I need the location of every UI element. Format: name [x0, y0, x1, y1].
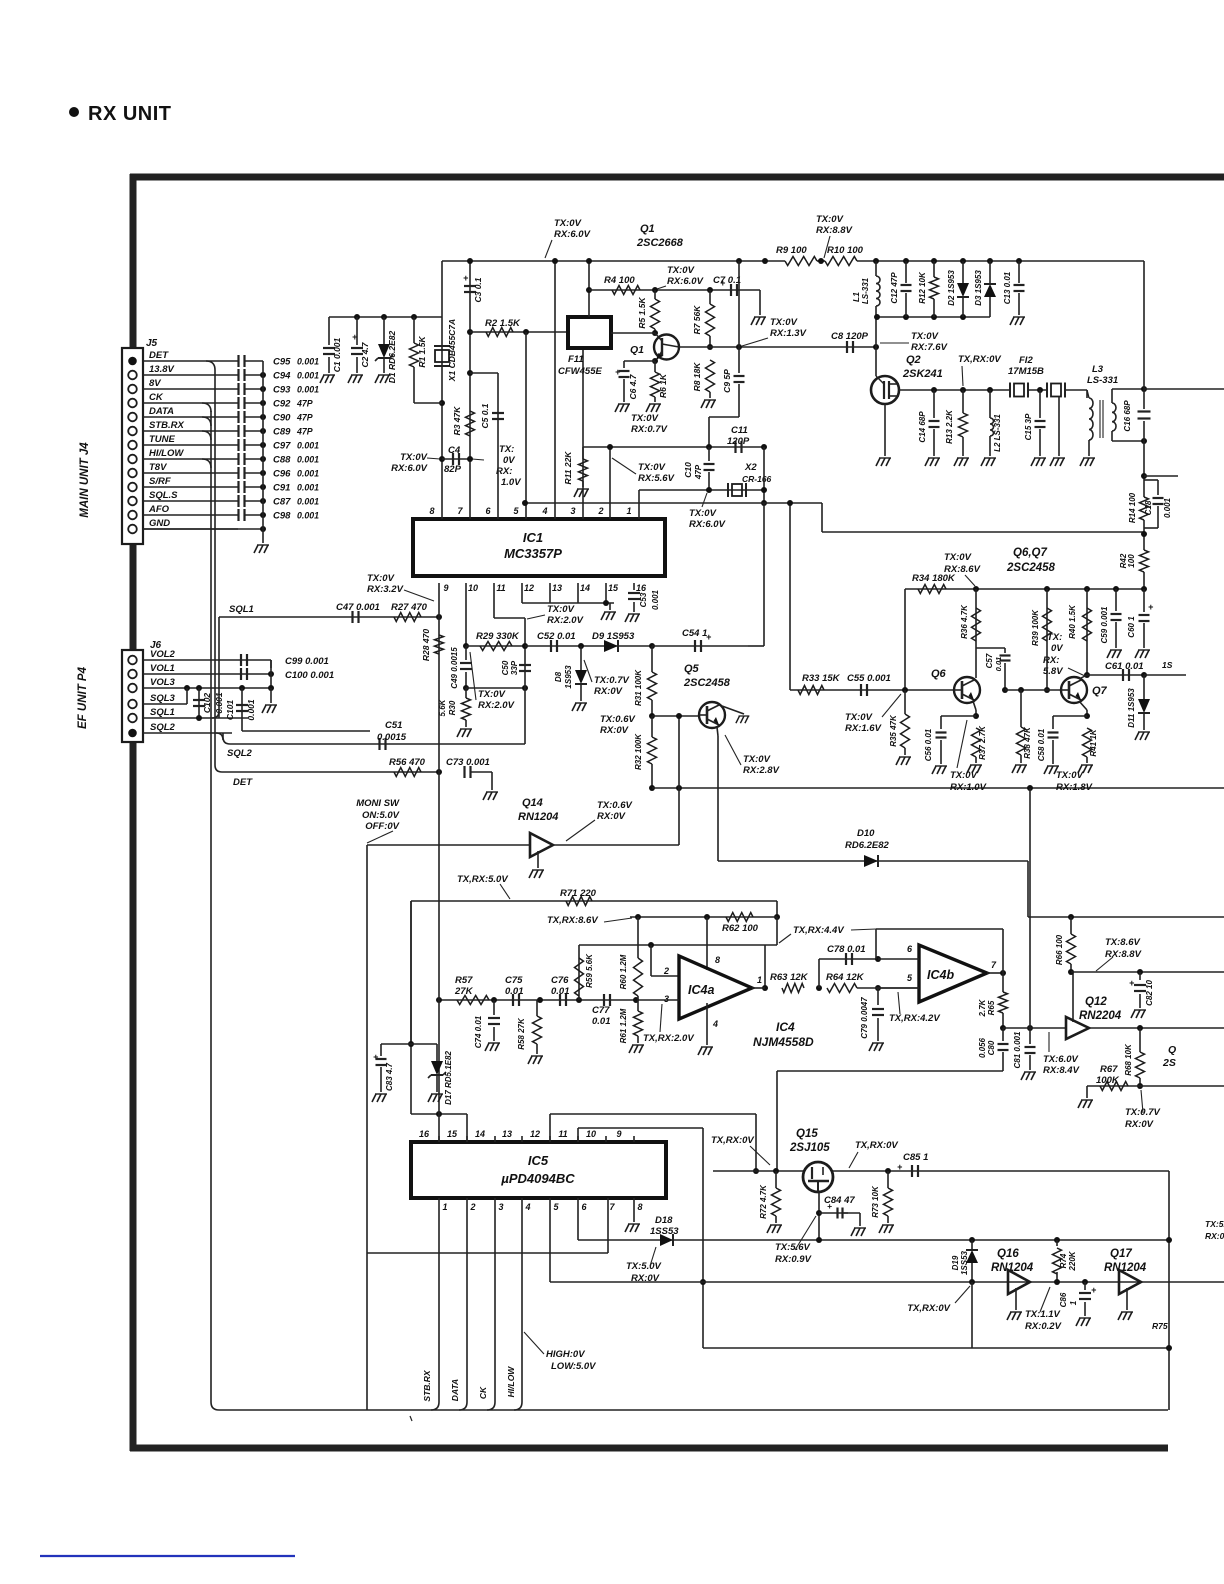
- svg-text:120P: 120P: [727, 436, 750, 447]
- svg-text:14: 14: [580, 583, 590, 593]
- svg-text:15: 15: [447, 1129, 458, 1139]
- svg-text:11: 11: [496, 583, 505, 593]
- svg-text:TX:0.6V: TX:0.6V: [600, 714, 636, 725]
- svg-text:R10 100: R10 100: [827, 245, 864, 256]
- svg-text:R8 18K: R8 18K: [692, 362, 702, 392]
- svg-text:TX:6.0V: TX:6.0V: [1043, 1054, 1079, 1065]
- svg-text:R64 12K: R64 12K: [826, 972, 865, 983]
- svg-text:VOL3: VOL3: [150, 677, 176, 688]
- svg-text:RN1204: RN1204: [518, 811, 558, 823]
- svg-text:F11: F11: [568, 354, 584, 365]
- svg-text:RX:0.7V: RX:0.7V: [631, 424, 668, 435]
- svg-text:R63 12K: R63 12K: [770, 972, 809, 983]
- svg-text:LS-331: LS-331: [1087, 375, 1118, 386]
- svg-text:Q14: Q14: [522, 797, 543, 809]
- svg-text:HI/LOW: HI/LOW: [506, 1366, 516, 1398]
- svg-text:+: +: [352, 332, 358, 342]
- svg-text:+: +: [463, 273, 469, 283]
- svg-text:C79 0.0047: C79 0.0047: [860, 997, 869, 1039]
- svg-text:D1 RD6.2E82: D1 RD6.2E82: [387, 331, 397, 384]
- svg-text:2: 2: [469, 1202, 475, 1212]
- svg-text:DATA: DATA: [450, 1379, 460, 1401]
- svg-text:TX:0V: TX:0V: [816, 214, 844, 225]
- svg-text:R31 100K: R31 100K: [634, 669, 643, 706]
- svg-text:0.001: 0.001: [1163, 497, 1172, 518]
- svg-text:13: 13: [502, 1129, 512, 1139]
- svg-text:VOL1: VOL1: [150, 663, 175, 674]
- svg-text:C98: C98: [273, 511, 291, 522]
- svg-text:R67: R67: [1100, 1064, 1118, 1075]
- svg-text:TX:: TX:: [1047, 632, 1062, 643]
- svg-text:C60 1: C60 1: [1127, 616, 1136, 638]
- svg-text:8: 8: [637, 1202, 642, 1212]
- svg-text:R68 10K: R68 10K: [1124, 1043, 1133, 1076]
- svg-text:1SS53: 1SS53: [960, 1250, 969, 1275]
- svg-text:TX:1.1V: TX:1.1V: [1025, 1309, 1061, 1320]
- svg-text:13.8V: 13.8V: [149, 364, 174, 375]
- svg-text:C57: C57: [985, 653, 994, 668]
- svg-text:TX:0V: TX:0V: [1056, 770, 1084, 781]
- svg-text:MC3357P: MC3357P: [504, 546, 562, 561]
- svg-text:R32 100K: R32 100K: [634, 733, 643, 770]
- svg-text:C97: C97: [273, 441, 291, 452]
- svg-text:C4: C4: [448, 445, 461, 456]
- svg-text:14: 14: [475, 1129, 485, 1139]
- svg-text:+: +: [1129, 978, 1135, 988]
- svg-text:HIGH:0V: HIGH:0V: [546, 1349, 585, 1360]
- svg-text:R59 5.6K: R59 5.6K: [585, 953, 594, 988]
- svg-text:RX:1.6V: RX:1.6V: [845, 723, 882, 734]
- svg-text:STB.RX: STB.RX: [422, 1369, 432, 1402]
- svg-text:RX:3.2V: RX:3.2V: [367, 584, 404, 595]
- svg-text:47P: 47P: [296, 413, 313, 423]
- svg-text:TX,RX:4.4V: TX,RX:4.4V: [793, 925, 844, 936]
- svg-text:D8: D8: [554, 671, 563, 682]
- svg-text:16: 16: [636, 583, 647, 593]
- svg-text:SQL1: SQL1: [150, 707, 175, 718]
- svg-text:1: 1: [626, 506, 631, 516]
- svg-text:R60 1.2M: R60 1.2M: [619, 954, 628, 989]
- svg-text:Q17: Q17: [1110, 1248, 1132, 1260]
- svg-text:Q6: Q6: [931, 668, 947, 680]
- svg-text:TX,RX:0V: TX,RX:0V: [958, 354, 1001, 365]
- svg-text:C55 0.001: C55 0.001: [847, 673, 891, 684]
- svg-text:IC4b: IC4b: [927, 968, 954, 982]
- svg-text:0.001: 0.001: [297, 483, 319, 493]
- svg-text:C59 0.001: C59 0.001: [1100, 606, 1109, 643]
- svg-text:TX:0V: TX:0V: [631, 413, 659, 424]
- svg-text:RX:1.3V: RX:1.3V: [770, 328, 807, 339]
- svg-text:3: 3: [664, 994, 669, 1004]
- svg-text:C83 4.7: C83 4.7: [385, 1062, 394, 1091]
- svg-text:100: 100: [1127, 554, 1136, 568]
- svg-text:SQL1: SQL1: [229, 604, 254, 615]
- svg-text:TX:8.6V: TX:8.6V: [1105, 937, 1141, 948]
- svg-text:2SC2458: 2SC2458: [1006, 562, 1056, 574]
- svg-text:R66 100: R66 100: [1055, 934, 1064, 965]
- svg-text:TX:: TX:: [499, 444, 514, 455]
- svg-text:R29 330K: R29 330K: [476, 631, 520, 642]
- svg-text:0.01: 0.01: [994, 657, 1003, 672]
- svg-text:2SJ105: 2SJ105: [789, 1142, 830, 1154]
- svg-text:C14 68P: C14 68P: [918, 411, 927, 443]
- svg-text:8V: 8V: [149, 378, 161, 389]
- svg-text:8: 8: [715, 955, 720, 965]
- svg-text:R37 2.7K: R37 2.7K: [978, 725, 987, 760]
- svg-text:R36 4.7K: R36 4.7K: [960, 604, 969, 639]
- svg-text:D19: D19: [951, 1255, 960, 1270]
- svg-text:C6 4.7: C6 4.7: [628, 373, 638, 399]
- svg-text:RX:0.2V: RX:0.2V: [1025, 1321, 1062, 1332]
- svg-text:TX:0V: TX:0V: [400, 452, 428, 463]
- svg-text:TX:0V: TX:0V: [638, 462, 666, 473]
- svg-text:RX:5.6V: RX:5.6V: [638, 473, 675, 484]
- svg-text:X1 CDB455C7A: X1 CDB455C7A: [447, 319, 457, 382]
- svg-text:R28 470: R28 470: [421, 629, 431, 661]
- svg-text:R75: R75: [1152, 1321, 1168, 1331]
- svg-text:RX:7.6V: RX:7.6V: [911, 342, 948, 353]
- svg-text:82P: 82P: [444, 464, 462, 475]
- svg-text:C82 10: C82 10: [1145, 980, 1154, 1006]
- svg-text:C16 68P: C16 68P: [1123, 400, 1132, 432]
- svg-text:C12 47P: C12 47P: [890, 272, 899, 304]
- svg-text:Q15: Q15: [796, 1128, 818, 1140]
- svg-text:LS-331: LS-331: [861, 277, 870, 304]
- svg-text:C90: C90: [273, 413, 291, 424]
- svg-text:RX:2.8V: RX:2.8V: [743, 765, 780, 776]
- svg-text:9: 9: [443, 583, 448, 593]
- svg-text:RX:2.0V: RX:2.0V: [547, 615, 584, 626]
- svg-text:IC1: IC1: [523, 530, 543, 545]
- svg-text:C8 120P: C8 120P: [831, 331, 869, 342]
- svg-text:R74: R74: [1059, 1253, 1068, 1268]
- svg-text:S/RF: S/RF: [149, 476, 171, 487]
- svg-text:0.001: 0.001: [297, 371, 319, 381]
- svg-text:0.001: 0.001: [651, 589, 660, 610]
- svg-text:MAIN UNIT J4: MAIN UNIT J4: [79, 442, 91, 518]
- svg-text:Q: Q: [1168, 1044, 1176, 1056]
- svg-text:C74 0.01: C74 0.01: [474, 1015, 483, 1048]
- svg-text:1: 1: [442, 1202, 447, 1212]
- svg-text:L1: L1: [851, 292, 861, 302]
- svg-text:CFW455E: CFW455E: [558, 366, 602, 377]
- svg-text:CK: CK: [478, 1386, 488, 1399]
- svg-text:5.8V: 5.8V: [1043, 666, 1063, 677]
- svg-text:C53: C53: [639, 592, 648, 607]
- svg-text:RX:0V: RX:0V: [600, 725, 629, 736]
- svg-text:47P: 47P: [296, 427, 313, 437]
- svg-text:R65: R65: [987, 1000, 996, 1015]
- svg-text:2: 2: [597, 506, 603, 516]
- svg-text:TX,RX:0V: TX,RX:0V: [711, 1135, 754, 1146]
- svg-text:C81 0.001: C81 0.001: [1013, 1031, 1022, 1068]
- svg-text:RX:0V: RX:0V: [631, 1273, 660, 1284]
- svg-text:15: 15: [608, 583, 619, 593]
- svg-text:TX:0V: TX:0V: [770, 317, 798, 328]
- svg-text:R12 10K: R12 10K: [918, 271, 927, 304]
- svg-text:FI2: FI2: [1019, 355, 1033, 366]
- svg-text:RX:6.0V: RX:6.0V: [667, 276, 704, 287]
- svg-text:RX:6.0V: RX:6.0V: [689, 519, 726, 530]
- svg-text:17M15B: 17M15B: [1008, 366, 1044, 377]
- svg-text:C54 1: C54 1: [682, 628, 707, 639]
- svg-text:C100 0.001: C100 0.001: [285, 670, 334, 681]
- svg-text:R71 220: R71 220: [560, 888, 597, 899]
- svg-text:33P: 33P: [510, 660, 519, 675]
- svg-text:TX:0V: TX:0V: [845, 712, 873, 723]
- svg-text:C11: C11: [731, 425, 748, 436]
- svg-text:R56 470: R56 470: [389, 757, 426, 768]
- svg-text:D10: D10: [857, 828, 875, 839]
- svg-text:TX:0.6V: TX:0.6V: [597, 800, 633, 811]
- svg-text:LOW:5.0V: LOW:5.0V: [551, 1361, 596, 1372]
- svg-text:RX:0.: RX:0.: [1205, 1231, 1224, 1241]
- svg-text:4: 4: [541, 506, 547, 516]
- svg-text:TX:0V: TX:0V: [367, 573, 395, 584]
- svg-text:C77: C77: [592, 1005, 610, 1016]
- svg-text:C58 0.01: C58 0.01: [1037, 728, 1046, 761]
- svg-text:RX:8.4V: RX:8.4V: [1043, 1065, 1080, 1076]
- svg-text:R39 100K: R39 100K: [1031, 609, 1040, 646]
- svg-text:0.001: 0.001: [297, 455, 319, 465]
- svg-text:0.0015: 0.0015: [377, 732, 407, 743]
- svg-text:D18: D18: [655, 1215, 673, 1226]
- svg-text:47P: 47P: [694, 464, 703, 480]
- svg-text:4: 4: [712, 1019, 718, 1029]
- svg-text:1S: 1S: [1162, 660, 1173, 670]
- svg-text:RD6.2E82: RD6.2E82: [845, 840, 890, 851]
- svg-text:C94: C94: [273, 371, 291, 382]
- svg-text:1: 1: [1069, 1300, 1078, 1305]
- svg-text:+: +: [1091, 1285, 1097, 1295]
- svg-text:C93: C93: [273, 385, 291, 396]
- svg-text:IC5: IC5: [528, 1153, 549, 1168]
- svg-text:C2 4.7: C2 4.7: [360, 341, 370, 367]
- svg-text:GND: GND: [149, 518, 170, 529]
- svg-text:R14 100: R14 100: [1128, 492, 1137, 523]
- svg-text:4: 4: [524, 1202, 530, 1212]
- svg-text:2S: 2S: [1162, 1057, 1176, 1069]
- svg-text:C13 0.01: C13 0.01: [1003, 271, 1012, 304]
- svg-text:C56 0.01: C56 0.01: [924, 728, 933, 761]
- svg-text:TX:0V: TX:0V: [554, 218, 582, 229]
- svg-text:C88: C88: [273, 455, 291, 466]
- svg-text:ON:5.0V: ON:5.0V: [362, 810, 400, 821]
- svg-text:3: 3: [570, 506, 575, 516]
- svg-text:R4 100: R4 100: [604, 275, 635, 286]
- svg-text:0.001: 0.001: [297, 385, 319, 395]
- svg-text:D17 RD5.1E82: D17 RD5.1E82: [444, 1051, 453, 1105]
- svg-text:C89: C89: [273, 427, 291, 438]
- svg-text:TX,RX:4.2V: TX,RX:4.2V: [889, 1013, 940, 1024]
- svg-text:C52 0.01: C52 0.01: [537, 631, 576, 642]
- svg-text:C99 0.001: C99 0.001: [285, 656, 329, 667]
- svg-text:R41 1K: R41 1K: [1089, 728, 1098, 756]
- svg-text:RX:0V: RX:0V: [594, 686, 623, 697]
- svg-text:C92: C92: [273, 399, 291, 410]
- svg-text:0.001: 0.001: [297, 441, 319, 451]
- svg-text:C95: C95: [273, 357, 291, 368]
- svg-text:+: +: [827, 1201, 832, 1211]
- svg-text:TX:0V: TX:0V: [743, 754, 771, 765]
- svg-text:C87: C87: [273, 497, 291, 508]
- svg-text:0.01: 0.01: [505, 986, 524, 997]
- svg-text:C47 0.001: C47 0.001: [336, 602, 380, 613]
- svg-text:0.001: 0.001: [297, 511, 319, 521]
- svg-text:+: +: [720, 278, 726, 288]
- svg-text:R27 470: R27 470: [391, 602, 428, 613]
- svg-text:T8V: T8V: [149, 462, 167, 473]
- svg-text:C1 0.001: C1 0.001: [332, 337, 342, 372]
- svg-text:C50: C50: [501, 660, 510, 675]
- svg-text:C61 0.01: C61 0.01: [1105, 661, 1144, 672]
- svg-text:0V: 0V: [503, 455, 515, 466]
- svg-text:R11 22K: R11 22K: [563, 451, 573, 485]
- svg-text:C96: C96: [273, 469, 291, 480]
- svg-text:DATA: DATA: [149, 406, 174, 417]
- svg-text:SQL.S: SQL.S: [149, 490, 178, 501]
- svg-text:47P: 47P: [296, 399, 313, 409]
- svg-text:HI/LOW: HI/LOW: [149, 448, 184, 459]
- svg-text:R5 1.5K: R5 1.5K: [637, 297, 647, 329]
- svg-text:R35 47K: R35 47K: [889, 714, 898, 747]
- svg-text:+: +: [1148, 602, 1154, 612]
- svg-text:3: 3: [498, 1202, 503, 1212]
- svg-text:Q1: Q1: [640, 223, 655, 235]
- svg-text:2SK241: 2SK241: [902, 368, 943, 380]
- svg-text:OFF:0V: OFF:0V: [365, 821, 399, 832]
- svg-text:C86: C86: [1059, 1292, 1068, 1307]
- svg-text:TX:0V: TX:0V: [478, 689, 506, 700]
- svg-text:C10: C10: [683, 462, 693, 478]
- svg-text:TX,RX:8.6V: TX,RX:8.6V: [547, 915, 598, 926]
- svg-text:D2 1S953: D2 1S953: [947, 270, 956, 306]
- svg-text:C80: C80: [987, 1040, 996, 1055]
- svg-text:EF UNIT P4: EF UNIT P4: [77, 666, 89, 729]
- svg-text:RX:0V: RX:0V: [597, 811, 626, 822]
- svg-text:+: +: [706, 632, 712, 642]
- svg-text:9: 9: [616, 1129, 621, 1139]
- svg-text:RN2204: RN2204: [1079, 1010, 1122, 1022]
- svg-text:AFO: AFO: [148, 504, 170, 515]
- svg-text:16: 16: [419, 1129, 430, 1139]
- svg-text:R9 100: R9 100: [776, 245, 807, 256]
- svg-text:0.001: 0.001: [297, 357, 319, 367]
- svg-text:TX:5.6V: TX:5.6V: [775, 1242, 811, 1253]
- svg-text:RX:1.8V: RX:1.8V: [1056, 782, 1093, 793]
- svg-text:12: 12: [530, 1129, 540, 1139]
- svg-text:IC4: IC4: [776, 1020, 795, 1034]
- svg-text:R3 47K: R3 47K: [452, 406, 462, 436]
- svg-text:2SC2458: 2SC2458: [683, 677, 731, 689]
- svg-text:IC4a: IC4a: [688, 983, 714, 997]
- svg-text:Q1: Q1: [630, 344, 644, 356]
- svg-text:2.7K: 2.7K: [978, 998, 987, 1017]
- svg-text:C91: C91: [273, 483, 290, 494]
- svg-text:RX:6.0V: RX:6.0V: [554, 229, 591, 240]
- svg-text:R73 10K: R73 10K: [871, 1185, 880, 1218]
- svg-text:+: +: [373, 1052, 379, 1062]
- svg-text:Q16: Q16: [997, 1248, 1019, 1260]
- svg-text:L2 LS-331: L2 LS-331: [993, 414, 1002, 452]
- svg-text:R57: R57: [455, 975, 473, 986]
- svg-text:R33 15K: R33 15K: [802, 673, 841, 684]
- svg-text:1: 1: [757, 975, 762, 985]
- svg-text:DET: DET: [149, 350, 169, 361]
- svg-text:C73 0.001: C73 0.001: [446, 757, 490, 768]
- svg-text:Q12: Q12: [1085, 996, 1107, 1008]
- svg-text:C102: C102: [202, 693, 212, 714]
- svg-text:C75: C75: [505, 975, 523, 986]
- svg-text:R72 4.7K: R72 4.7K: [759, 1184, 768, 1219]
- svg-text:RX:0V: RX:0V: [1125, 1119, 1154, 1130]
- svg-text:1SS53: 1SS53: [650, 1226, 679, 1237]
- svg-text:SQL3: SQL3: [150, 693, 176, 704]
- svg-text:1.0V: 1.0V: [501, 477, 521, 488]
- svg-text:C78 0.01: C78 0.01: [827, 944, 866, 955]
- svg-text:RX:0.9V: RX:0.9V: [775, 1254, 812, 1265]
- svg-text:TX:5.0V: TX:5.0V: [626, 1261, 662, 1272]
- svg-text:Q6,Q7: Q6,Q7: [1013, 547, 1047, 559]
- svg-text:10: 10: [468, 583, 478, 593]
- svg-text:J5: J5: [146, 338, 158, 349]
- svg-text:R6 1K: R6 1K: [658, 373, 668, 398]
- svg-text:RX:8.8V: RX:8.8V: [1105, 949, 1142, 960]
- svg-text:R40 1.5K: R40 1.5K: [1068, 604, 1077, 639]
- svg-text:RX UNIT: RX UNIT: [88, 103, 172, 125]
- svg-text:Q2: Q2: [906, 354, 921, 366]
- svg-text:C5 0.1: C5 0.1: [480, 403, 490, 428]
- svg-text:R2 1.5K: R2 1.5K: [485, 318, 521, 329]
- svg-text:TX:0.7V: TX:0.7V: [594, 675, 630, 686]
- svg-text:TX:0V: TX:0V: [689, 508, 717, 519]
- svg-text:Q7: Q7: [1092, 685, 1108, 697]
- svg-text:R13 2.2K: R13 2.2K: [945, 409, 954, 444]
- svg-text:C85 1: C85 1: [903, 1152, 928, 1163]
- svg-text:DET: DET: [233, 777, 253, 788]
- svg-text:TX:0V: TX:0V: [911, 331, 939, 342]
- svg-text:D9 1S953: D9 1S953: [592, 631, 635, 642]
- svg-text:R7 56K: R7 56K: [692, 305, 702, 335]
- svg-text:C18: C18: [1144, 500, 1153, 515]
- svg-text:STB.RX: STB.RX: [149, 420, 185, 431]
- svg-text:TX:0V: TX:0V: [950, 770, 978, 781]
- svg-text:C76: C76: [551, 975, 569, 986]
- svg-text:SQL2: SQL2: [227, 748, 253, 759]
- svg-text:C101: C101: [225, 700, 235, 721]
- svg-text:Q5: Q5: [684, 663, 700, 675]
- svg-text:TX:0V: TX:0V: [547, 604, 575, 615]
- svg-text:C3 0.1: C3 0.1: [473, 277, 483, 302]
- svg-text:CR-166: CR-166: [742, 474, 772, 484]
- svg-text:C51: C51: [385, 720, 402, 731]
- svg-text:C49 0.0015: C49 0.0015: [450, 647, 459, 689]
- svg-text:TX,RX:2.0V: TX,RX:2.0V: [643, 1033, 694, 1044]
- svg-text:µPD4094BC: µPD4094BC: [500, 1171, 575, 1186]
- svg-text:0V: 0V: [1051, 643, 1063, 654]
- svg-text:27K: 27K: [454, 986, 474, 997]
- svg-text:13: 13: [552, 583, 562, 593]
- svg-text:R1 1.5K: R1 1.5K: [417, 336, 427, 368]
- svg-text:L3: L3: [1092, 364, 1104, 375]
- svg-text:D3 1S953: D3 1S953: [974, 270, 983, 306]
- svg-text:11: 11: [558, 1129, 567, 1139]
- svg-text:RX:: RX:: [1043, 655, 1059, 666]
- svg-text:2SC2668: 2SC2668: [636, 237, 684, 249]
- svg-text:C15 3P: C15 3P: [1024, 413, 1033, 440]
- svg-text:TX,RX:0V: TX,RX:0V: [855, 1140, 898, 1151]
- svg-text:SQL2: SQL2: [150, 722, 176, 733]
